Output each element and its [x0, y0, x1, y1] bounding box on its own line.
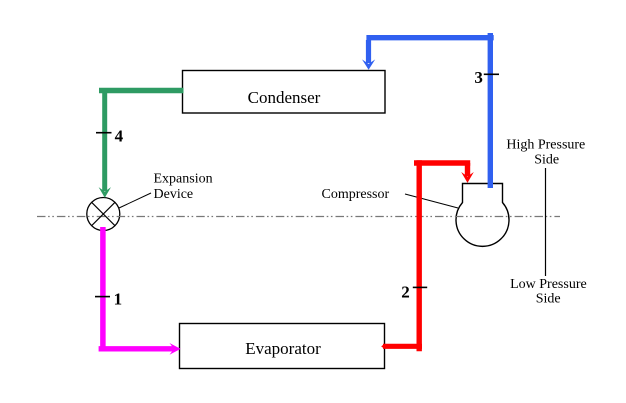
- svg-text:Expansion: Expansion: [154, 172, 213, 187]
- svg-text:1: 1: [114, 290, 123, 309]
- blue pipe compressor to condenser: [362, 33, 494, 188]
- svg-text:Condenser: Condenser: [248, 88, 321, 107]
- expansion device circle: [87, 198, 120, 231]
- tick node 2: [413, 286, 427, 288]
- high/low pressure divider line: [545, 168, 547, 276]
- tick node 3: [484, 73, 499, 75]
- evaporator box: [180, 324, 385, 369]
- svg-text:Side: Side: [534, 153, 559, 168]
- compressor body: [456, 184, 509, 247]
- centerline (dash-dot-dot): [37, 216, 560, 218]
- svg-text:High Pressure: High Pressure: [506, 138, 585, 153]
- svg-text:4: 4: [115, 126, 124, 145]
- svg-text:Compressor: Compressor: [322, 187, 390, 202]
- green pipe condenser to expansion device: [99, 88, 184, 198]
- svg-text:3: 3: [474, 68, 483, 87]
- leader line expansion device: [119, 193, 151, 208]
- svg-text:Evaporator: Evaporator: [245, 339, 321, 358]
- tick node 4: [96, 132, 112, 134]
- svg-text:Side: Side: [536, 292, 561, 307]
- leader line compressor: [405, 194, 458, 208]
- tick node 1: [95, 296, 110, 298]
- svg-text:Device: Device: [154, 187, 194, 202]
- svg-text:Low Pressure: Low Pressure: [510, 277, 587, 292]
- expansion device X: [92, 202, 115, 225]
- condenser box: [183, 71, 386, 114]
- magenta pipe expansion device to evaporator: [99, 227, 181, 355]
- svg-text:2: 2: [401, 282, 410, 301]
- red pipe evaporator to compressor: [381, 160, 474, 351]
